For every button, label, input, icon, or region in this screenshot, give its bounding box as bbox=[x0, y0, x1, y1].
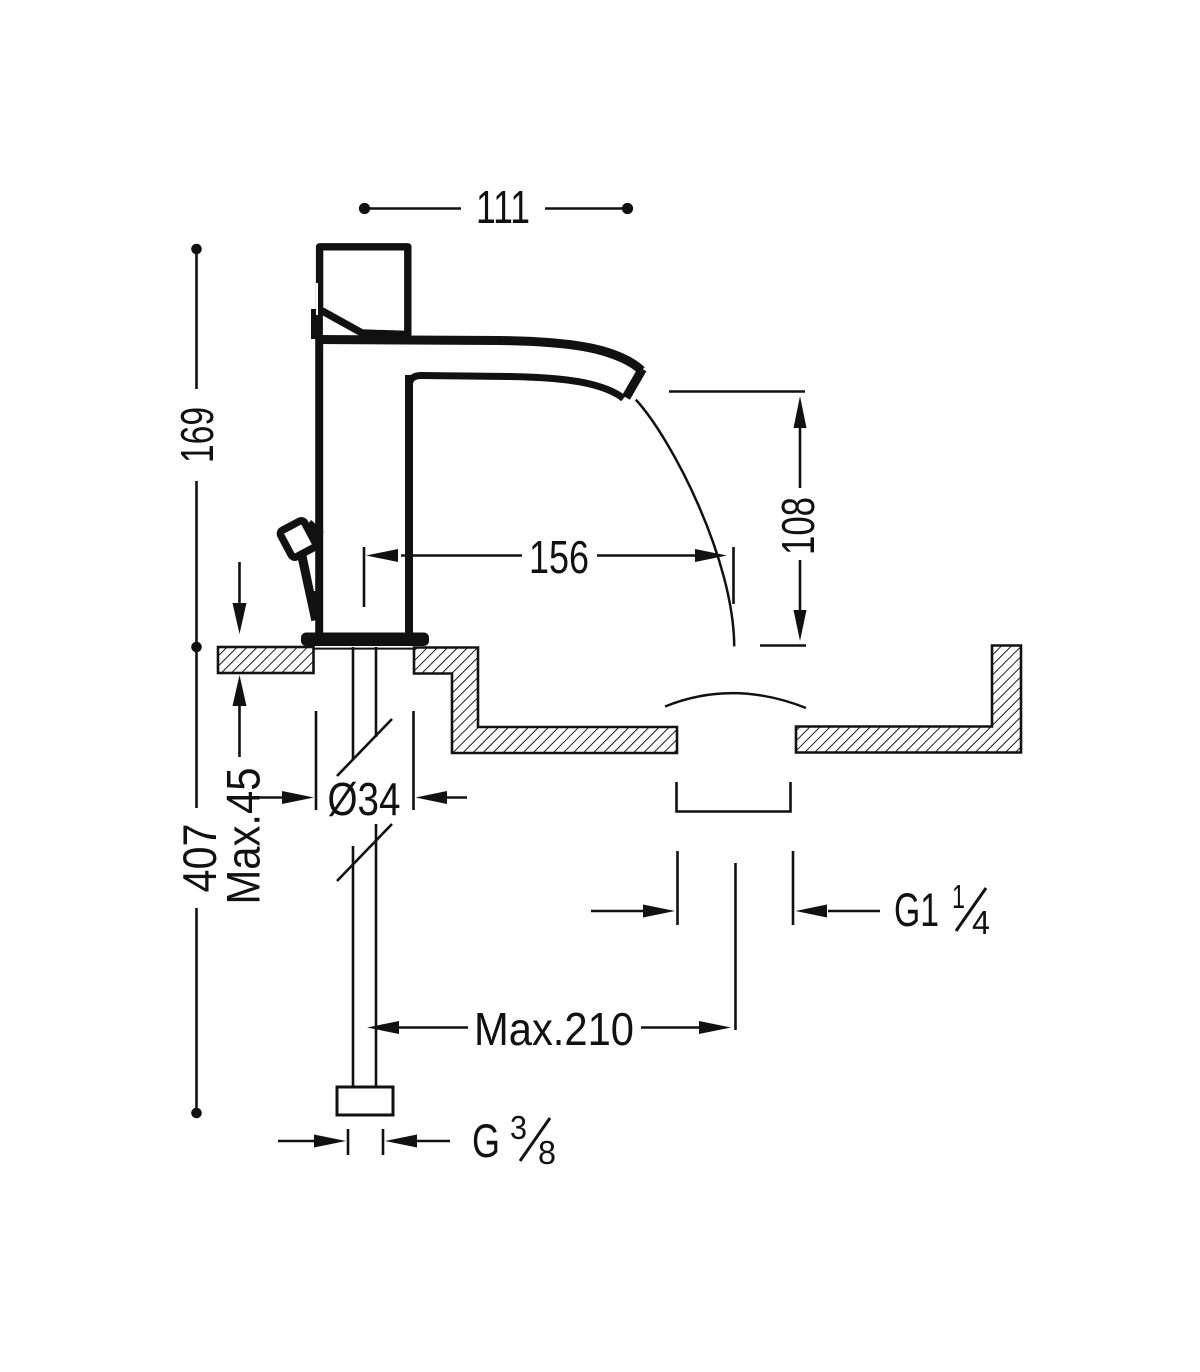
counter left slab bbox=[218, 647, 314, 673]
pop-up rod knob bbox=[279, 519, 320, 620]
svg-text:1: 1 bbox=[952, 878, 965, 915]
dimension 407 bbox=[195, 647, 198, 1113]
drain dome bbox=[665, 693, 806, 708]
water trajectory bbox=[636, 400, 734, 647]
dimension Max.45 bbox=[238, 562, 241, 757]
dimension 156 bbox=[364, 547, 734, 607]
svg-text:G1: G1 bbox=[894, 883, 939, 936]
spout outer top bbox=[316, 340, 642, 371]
drain centerline bbox=[734, 863, 737, 1030]
svg-text:108: 108 bbox=[772, 497, 824, 555]
dimension Max.210 bbox=[399, 1026, 700, 1029]
dimension 169 bbox=[195, 249, 198, 647]
dimension G1 1/4 bbox=[591, 851, 880, 925]
spout inner bottom bbox=[409, 376, 624, 401]
dimension O34 bbox=[256, 711, 467, 810]
faucet base flange bbox=[301, 633, 429, 647]
svg-text:111: 111 bbox=[476, 181, 530, 233]
supply pipe bbox=[337, 647, 392, 1087]
body right edge bbox=[405, 375, 413, 634]
svg-text:Max.210: Max.210 bbox=[474, 1003, 634, 1055]
svg-text:Max.45: Max.45 bbox=[217, 768, 270, 905]
svg-text:156: 156 bbox=[529, 531, 589, 583]
svg-text:G: G bbox=[472, 1114, 500, 1167]
drain tailpiece bbox=[677, 782, 791, 812]
svg-text:Ø34: Ø34 bbox=[328, 773, 401, 825]
dimension 111 bbox=[364, 207, 627, 210]
dimension 108 bbox=[669, 392, 806, 646]
svg-text:4: 4 bbox=[972, 904, 990, 941]
svg-text:3: 3 bbox=[510, 1109, 527, 1146]
basin right band and rim bbox=[796, 646, 1021, 753]
pipe break marks bbox=[337, 719, 392, 776]
counter step piece bbox=[414, 648, 677, 754]
spout end face bbox=[626, 369, 643, 398]
G 3/8 fitting bbox=[337, 1087, 393, 1115]
faucet body and spout bbox=[316, 339, 643, 634]
svg-text:169: 169 bbox=[171, 407, 223, 463]
svg-text:8: 8 bbox=[538, 1134, 556, 1171]
dimension G 3/8 bbox=[278, 1129, 450, 1155]
body left edge bbox=[315, 339, 323, 634]
faucet handle bbox=[314, 247, 408, 340]
